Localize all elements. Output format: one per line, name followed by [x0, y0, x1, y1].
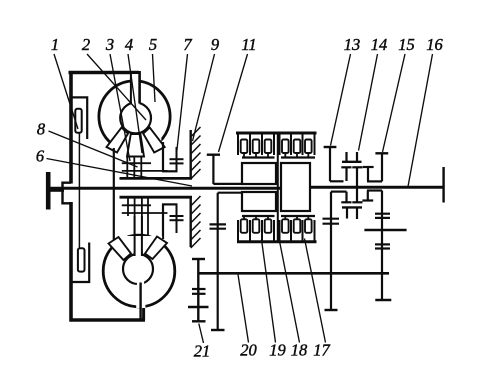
final drive bars	[192, 288, 206, 290]
bottom pocket wall	[70, 243, 89, 283]
output gear shaft x382	[381, 191, 383, 301]
leader 17	[305, 239, 326, 343]
svg-text:11: 11	[241, 35, 256, 54]
one-way clutch stem bottom	[176, 204, 178, 233]
top clutch left group stems	[244, 153, 268, 158]
gear pair top stubs up	[347, 152, 358, 162]
svg-text:5: 5	[149, 35, 157, 54]
main shaft right	[310, 186, 444, 189]
svg-text:7: 7	[183, 35, 192, 54]
output gear bars upper	[375, 213, 390, 215]
oil pump rect top	[75, 109, 81, 133]
drum shaft end cap	[211, 329, 225, 331]
bottom clutch left group stems	[244, 216, 268, 220]
L foot top	[162, 170, 178, 172]
brake bars x331	[323, 218, 340, 220]
brake shaft cap x331	[325, 309, 338, 311]
housing wall notch top	[63, 183, 72, 190]
svg-text:13: 13	[344, 35, 361, 54]
final drive cap top	[192, 258, 205, 260]
svg-text:17: 17	[313, 341, 330, 360]
erase outer ring bottom gap	[115, 138, 161, 160]
gear grid bottom verticals	[127, 198, 129, 217]
blade left bottom	[109, 237, 132, 260]
svg-text:3: 3	[105, 35, 114, 54]
bottom clutch right group inner plates	[282, 219, 289, 233]
leader 6	[47, 159, 193, 187]
leader 21	[199, 324, 204, 344]
converter right side line bottom	[162, 204, 164, 239]
top clutch right group lower rail	[281, 156, 315, 158]
sleeve top right vertical	[381, 153, 383, 181]
erase inner circle channel bottom	[137, 281, 144, 287]
hatch strokes top	[191, 127, 201, 179]
svg-text:15: 15	[398, 35, 415, 54]
planet box upper-left	[242, 163, 276, 184]
converter right side line top	[162, 142, 164, 172]
input flange	[46, 172, 51, 210]
leader 11	[219, 54, 248, 152]
svg-text:20: 20	[240, 341, 257, 360]
leader 14	[359, 54, 378, 151]
brake T13 foot	[330, 180, 344, 182]
svg-text:2: 2	[82, 35, 90, 54]
input shaft stub	[48, 189, 64, 192]
drum T top-left	[207, 153, 220, 155]
leader 1	[54, 54, 78, 129]
erase outer ring bottom channel-gap	[136, 301, 145, 309]
output end flange	[442, 167, 444, 203]
housing top edge	[69, 71, 140, 75]
brake shaft x331	[330, 192, 332, 310]
svg-text:6: 6	[36, 147, 45, 166]
L foot bottom	[162, 203, 178, 205]
svg-text:8: 8	[37, 120, 46, 139]
clutch divider	[277, 133, 279, 242]
bottom clutch right group upper rail	[281, 215, 315, 217]
turbine inner circle top	[120, 103, 151, 134]
channel right line top	[138, 71, 141, 104]
svg-text:9: 9	[211, 35, 219, 54]
svg-text:14: 14	[371, 35, 388, 54]
leader 7	[177, 54, 188, 154]
blade right bottom	[145, 237, 167, 260]
svg-text:16: 16	[426, 35, 443, 54]
housing left wall lower	[69, 202, 73, 322]
gear pair top wide bar	[342, 161, 362, 163]
housing wall notch bottom	[63, 190, 72, 203]
torque converter outer ring bottom	[103, 235, 175, 307]
channel exit line bottom	[139, 283, 141, 321]
housing right wall bottom stub	[142, 302, 145, 320]
planet box lower-left	[242, 192, 276, 211]
leader 15	[383, 54, 406, 152]
blade right top	[143, 128, 165, 153]
lower countershaft	[198, 272, 389, 275]
leader 5	[153, 54, 156, 102]
main shaft left	[47, 187, 281, 190]
sleeve bottom bar	[362, 199, 373, 201]
channel lines bottom	[134, 216, 136, 256]
one-way clutch stem top	[176, 147, 178, 171]
leader 13	[331, 54, 351, 146]
erase outer ring bottom top-gap	[116, 236, 162, 253]
drum stem top-left	[212, 155, 214, 184]
svg-text:21: 21	[194, 342, 211, 361]
converter left side line	[113, 148, 115, 241]
final drive wide bar	[188, 306, 209, 308]
erase inner circle top channel	[132, 100, 139, 107]
brake T13 stem	[329, 147, 331, 181]
gear pair top stubs down	[347, 167, 358, 187]
svg-text:1: 1	[51, 35, 59, 54]
torque converter outer ring top	[99, 81, 170, 152]
leader 8	[49, 131, 138, 167]
lower cluster T bars	[341, 201, 351, 203]
channel left line top	[130, 73, 132, 105]
svg-text:19: 19	[269, 341, 286, 360]
leader 4	[128, 54, 142, 153]
drum shaft left-lower	[217, 193, 219, 330]
erase outer ring top channel	[132, 74, 139, 101]
drum gear bars left-lower	[210, 223, 227, 225]
output gear bars lower	[375, 243, 390, 245]
top clutch left group outer plates	[237, 134, 239, 155]
one-way clutch bars bottom	[170, 215, 184, 217]
housing left wall upper	[69, 71, 73, 184]
top clutch right group inner plates	[282, 140, 289, 154]
bottom clutch right group stems	[285, 216, 308, 220]
drum step top	[213, 183, 242, 185]
one-way clutch bars top	[170, 158, 184, 160]
lower cluster wide bar	[342, 206, 362, 208]
top clutch left group inner plates	[241, 140, 248, 154]
lower cluster shelf	[331, 191, 347, 193]
blade left top	[107, 128, 129, 153]
pump tie line	[78, 133, 80, 250]
leader 3	[110, 54, 130, 161]
output gear shaft cap	[375, 299, 391, 301]
oil pump rect bottom	[78, 248, 85, 271]
gear pair top T bars	[341, 166, 351, 168]
bottom clutch left group inner plates	[241, 219, 248, 233]
bracket bar top	[120, 177, 193, 180]
clutch bottom rail	[237, 240, 317, 243]
sleeve top foot	[367, 180, 382, 182]
clutch top rail	[236, 132, 317, 135]
svg-text:18: 18	[291, 341, 308, 360]
sleeve bottom shelf	[367, 189, 382, 191]
final drive cap bottom	[192, 320, 206, 322]
sleeve bottom stub	[367, 191, 369, 201]
bracket bar bottom	[120, 196, 193, 199]
leader 20	[238, 275, 249, 343]
gear grid top ticks	[122, 162, 151, 164]
sleeve top T bar	[363, 166, 374, 168]
top clutch right group stems	[285, 153, 308, 158]
hatch strokes bottom	[191, 196, 201, 248]
gear grid bottom ticks	[122, 204, 151, 206]
blade middle top	[127, 134, 144, 157]
gear grid top verticals	[126, 156, 128, 179]
sleeve top cap bar	[375, 152, 388, 154]
svg-text:4: 4	[125, 35, 133, 54]
bottom clutch right group outer plates	[279, 220, 281, 241]
top pocket wall	[70, 97, 87, 139]
sleeve top stem	[367, 167, 369, 182]
bottom clutch left group outer plates	[237, 220, 239, 241]
housing bottom edge	[70, 318, 146, 322]
drum step bottom	[218, 192, 242, 194]
final drive shaft x198	[197, 259, 199, 322]
top clutch left group lower rail	[242, 156, 275, 158]
turbine inner circle bottom	[123, 254, 153, 284]
leader 9	[193, 54, 215, 141]
leader 19	[262, 240, 276, 343]
top clutch right group outer plates	[279, 134, 281, 155]
leader 18	[279, 239, 300, 343]
bottom clutch left group upper rail	[242, 215, 275, 217]
output gear horizontal	[364, 229, 406, 232]
leader 16	[408, 54, 433, 187]
lower cluster stub1	[345, 192, 347, 203]
brake T13 bar	[324, 146, 337, 148]
erase inner circle channel top	[134, 251, 141, 258]
hatched wall bottom	[189, 197, 191, 247]
hatched wall top	[189, 130, 191, 178]
lower cluster stub2	[356, 188, 358, 202]
lower cluster hang stubs	[347, 207, 357, 219]
leader 2	[87, 54, 146, 120]
planet box right	[281, 163, 310, 211]
